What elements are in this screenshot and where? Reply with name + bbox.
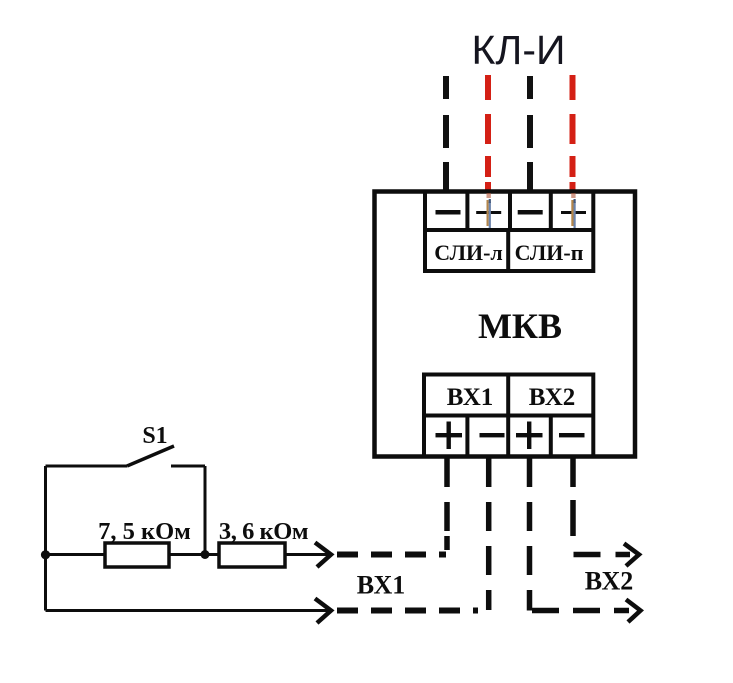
svg-text:ВХ2: ВХ2: [529, 384, 576, 411]
svg-text:СЛИ-л: СЛИ-л: [434, 240, 503, 265]
svg-text:ВХ2: ВХ2: [585, 567, 633, 596]
svg-text:7, 5 кОм: 7, 5 кОм: [98, 518, 191, 545]
svg-text:ВХ1: ВХ1: [447, 384, 494, 411]
svg-text:КЛ-И: КЛ-И: [472, 27, 566, 73]
svg-text:3, 6 кОм: 3, 6 кОм: [219, 518, 308, 545]
svg-text:ВХ1: ВХ1: [357, 571, 405, 600]
svg-text:СЛИ-п: СЛИ-п: [515, 240, 584, 265]
svg-text:МКВ: МКВ: [478, 306, 562, 346]
svg-text:S1: S1: [142, 423, 167, 449]
